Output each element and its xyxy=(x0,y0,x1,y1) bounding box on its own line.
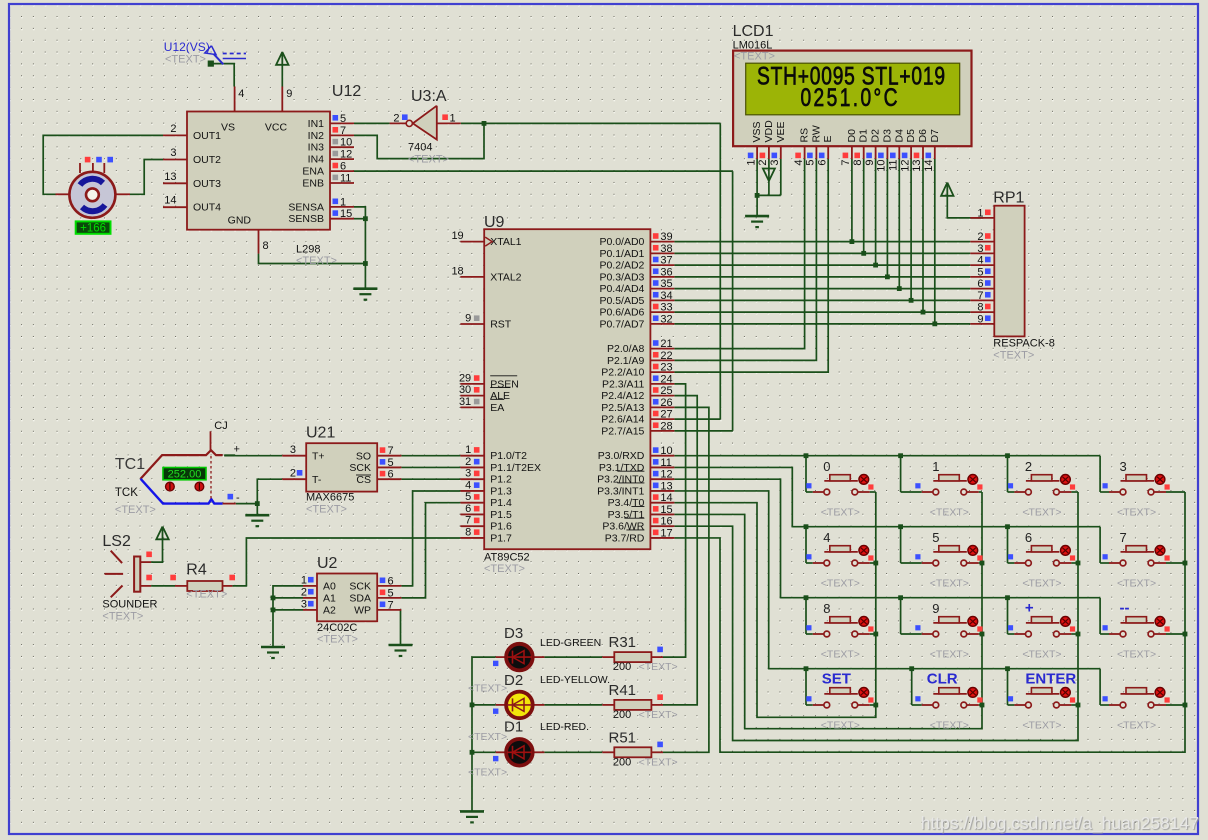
svg-text:<TEXT>: <TEXT> xyxy=(306,504,347,516)
svg-text:P0.2/AD2: P0.2/AD2 xyxy=(599,260,644,272)
svg-text:1: 1 xyxy=(465,444,471,456)
svg-text:OUT3: OUT3 xyxy=(193,178,221,190)
svg-text:P1.0/T2: P1.0/T2 xyxy=(490,450,527,462)
svg-text:U21: U21 xyxy=(306,425,335,442)
svg-text:11: 11 xyxy=(888,160,900,171)
svg-text:WP: WP xyxy=(354,605,371,617)
svg-text:7: 7 xyxy=(340,125,346,137)
svg-text:CJ: CJ xyxy=(214,420,227,432)
svg-text:LED-RED.: LED-RED. xyxy=(540,721,589,733)
svg-text:5: 5 xyxy=(465,491,471,503)
svg-text:15: 15 xyxy=(340,208,352,220)
svg-text:RESPACK-8: RESPACK-8 xyxy=(993,338,1055,350)
svg-text:6: 6 xyxy=(388,469,394,481)
svg-text:3: 3 xyxy=(170,147,176,159)
svg-text:R41: R41 xyxy=(609,682,637,699)
svg-text:252.00: 252.00 xyxy=(168,469,202,481)
svg-text:1: 1 xyxy=(340,196,346,208)
svg-text:P3.7/RD: P3.7/RD xyxy=(605,532,645,544)
svg-text:RS: RS xyxy=(799,128,811,143)
svg-text:P2.5/A13: P2.5/A13 xyxy=(601,402,644,414)
svg-text:11: 11 xyxy=(340,173,351,185)
svg-text:A0: A0 xyxy=(323,581,336,593)
svg-text:21: 21 xyxy=(660,338,672,350)
svg-text:<TEXT>: <TEXT> xyxy=(930,649,969,661)
svg-text:0251.0°C: 0251.0°C xyxy=(801,84,898,112)
svg-text:5: 5 xyxy=(388,587,394,599)
svg-text:IN3: IN3 xyxy=(308,142,325,154)
svg-text:19: 19 xyxy=(451,230,463,242)
svg-text:0: 0 xyxy=(823,459,830,474)
svg-text:200: 200 xyxy=(613,709,631,721)
svg-text:12: 12 xyxy=(899,160,911,172)
svg-text:1: 1 xyxy=(450,113,456,125)
svg-text:6: 6 xyxy=(388,575,394,587)
svg-text:7: 7 xyxy=(388,445,394,457)
svg-text:35: 35 xyxy=(660,278,672,290)
svg-text:5: 5 xyxy=(805,160,817,166)
svg-text:2: 2 xyxy=(301,586,307,598)
svg-text:15: 15 xyxy=(660,504,672,516)
svg-text:P0.0/AD0: P0.0/AD0 xyxy=(599,236,644,248)
svg-text:MAX6675: MAX6675 xyxy=(306,492,354,504)
svg-text:6: 6 xyxy=(1025,530,1032,545)
svg-text:200: 200 xyxy=(613,757,631,769)
svg-text:D5: D5 xyxy=(905,129,917,143)
svg-text:VDD: VDD xyxy=(763,120,775,143)
svg-text:<TEXT>: <TEXT> xyxy=(930,720,969,732)
svg-text:8: 8 xyxy=(852,160,864,166)
svg-text:D6: D6 xyxy=(917,129,929,143)
svg-text:7: 7 xyxy=(840,160,852,166)
svg-text:LS2: LS2 xyxy=(102,533,131,550)
svg-text:6: 6 xyxy=(816,160,828,166)
svg-text:3: 3 xyxy=(769,160,781,166)
svg-text:T+: T+ xyxy=(312,451,325,463)
svg-text:LCD1: LCD1 xyxy=(733,23,774,40)
svg-text:PSEN: PSEN xyxy=(490,378,519,390)
svg-text:<TEXT>: <TEXT> xyxy=(1117,578,1156,590)
svg-text:25: 25 xyxy=(660,385,672,397)
svg-text:D7: D7 xyxy=(929,129,941,143)
svg-text:37: 37 xyxy=(660,255,672,267)
svg-text:<TEXT>: <TEXT> xyxy=(1022,507,1061,519)
svg-text:P3.0/RXD: P3.0/RXD xyxy=(598,450,645,462)
svg-text:P1.7: P1.7 xyxy=(490,532,512,544)
svg-text:P2.2/A10: P2.2/A10 xyxy=(601,367,644,379)
svg-text:<TEXT>: <TEXT> xyxy=(1117,649,1156,661)
svg-text:P3.6/WR: P3.6/WR xyxy=(602,521,644,533)
svg-text:TC1: TC1 xyxy=(115,456,145,473)
svg-text:8: 8 xyxy=(465,526,471,538)
svg-text:8: 8 xyxy=(263,240,269,252)
svg-text:200: 200 xyxy=(613,661,631,673)
svg-text:--: -- xyxy=(1120,600,1130,617)
svg-text:RP1: RP1 xyxy=(993,190,1024,207)
svg-text:SENSB: SENSB xyxy=(288,213,324,225)
svg-text:9: 9 xyxy=(977,313,983,325)
svg-text:P1.1/T2EX: P1.1/T2EX xyxy=(490,462,541,474)
svg-text:9: 9 xyxy=(864,160,876,166)
svg-text:<TEXT>: <TEXT> xyxy=(468,731,507,743)
svg-text:22: 22 xyxy=(660,350,672,362)
svg-text:4: 4 xyxy=(465,479,471,491)
svg-text:P0.7/AD7: P0.7/AD7 xyxy=(599,318,644,330)
svg-text:SCK: SCK xyxy=(349,581,371,593)
svg-text:<TEXT>: <TEXT> xyxy=(734,51,775,63)
svg-text:A1: A1 xyxy=(323,593,336,605)
svg-text:6: 6 xyxy=(977,278,983,290)
svg-text:7: 7 xyxy=(977,290,983,302)
svg-text:U9: U9 xyxy=(484,214,505,231)
svg-text:7: 7 xyxy=(1120,530,1127,545)
svg-text:<TEXT>: <TEXT> xyxy=(115,504,156,516)
svg-text:U3:A: U3:A xyxy=(411,88,447,105)
svg-text:<TEXT>: <TEXT> xyxy=(1117,507,1156,519)
svg-text:P1.5: P1.5 xyxy=(490,509,512,521)
svg-text:IN1: IN1 xyxy=(308,118,325,130)
svg-text:5: 5 xyxy=(932,530,939,545)
svg-text:P0.4/AD4: P0.4/AD4 xyxy=(599,283,644,295)
svg-text:16: 16 xyxy=(660,516,672,528)
svg-text:31: 31 xyxy=(459,396,471,408)
svg-text:<TEXT>: <TEXT> xyxy=(821,507,860,519)
svg-text:<TEXT>: <TEXT> xyxy=(296,255,337,267)
svg-text:SET: SET xyxy=(822,671,851,688)
svg-text:1: 1 xyxy=(301,574,307,586)
svg-text:P3.3/INT1: P3.3/INT1 xyxy=(597,485,644,497)
svg-text:3: 3 xyxy=(977,243,983,255)
svg-text:OUT4: OUT4 xyxy=(193,202,221,214)
svg-text:U2: U2 xyxy=(317,555,338,572)
svg-text:P2.0/A8: P2.0/A8 xyxy=(607,343,645,355)
svg-text:14: 14 xyxy=(660,492,672,504)
svg-text:P2.6/A14: P2.6/A14 xyxy=(601,414,644,426)
svg-text:E: E xyxy=(822,135,834,142)
svg-text:9: 9 xyxy=(286,88,292,100)
svg-text:<TEXT>: <TEXT> xyxy=(821,578,860,590)
svg-text:4: 4 xyxy=(238,88,244,100)
svg-text:P1.4: P1.4 xyxy=(490,497,512,509)
svg-text:AT89C52: AT89C52 xyxy=(484,552,530,564)
svg-text:<TEXT>: <TEXT> xyxy=(165,54,206,66)
svg-text:<TEXT>: <TEXT> xyxy=(1022,720,1061,732)
svg-text:39: 39 xyxy=(660,231,672,243)
svg-text:VSS: VSS xyxy=(751,121,763,142)
svg-text:12: 12 xyxy=(660,469,672,481)
svg-text:+: + xyxy=(1025,600,1034,617)
svg-text:3: 3 xyxy=(290,444,296,456)
svg-text:P0.5/AD5: P0.5/AD5 xyxy=(599,295,644,307)
svg-text:P0.1/AD1: P0.1/AD1 xyxy=(599,248,644,260)
svg-text:7404: 7404 xyxy=(408,142,432,154)
svg-text:<TEXT>: <TEXT> xyxy=(1022,578,1061,590)
svg-text:<TEXT>: <TEXT> xyxy=(484,563,525,575)
svg-text:8: 8 xyxy=(977,302,983,314)
svg-text:STH+0095 STL+019: STH+0095 STL+019 xyxy=(757,62,945,90)
svg-text:<TEXT>: <TEXT> xyxy=(408,154,449,166)
svg-text:9: 9 xyxy=(465,313,471,325)
svg-text:<TEXT>: <TEXT> xyxy=(930,578,969,590)
svg-text:D0: D0 xyxy=(846,129,858,143)
svg-text:18: 18 xyxy=(451,265,463,277)
svg-text:2: 2 xyxy=(170,123,176,135)
svg-text:29: 29 xyxy=(459,372,471,384)
svg-text:10: 10 xyxy=(340,137,352,149)
svg-text:36: 36 xyxy=(660,266,672,278)
svg-text:33: 33 xyxy=(660,302,672,314)
svg-text:U12: U12 xyxy=(332,83,361,100)
svg-text:6: 6 xyxy=(340,161,346,173)
svg-text:27: 27 xyxy=(660,409,672,421)
svg-text:7: 7 xyxy=(465,515,471,527)
svg-text:<TEXT>: <TEXT> xyxy=(821,720,860,732)
svg-text:P0.3/AD3: P0.3/AD3 xyxy=(599,271,644,283)
svg-text:VS: VS xyxy=(221,122,235,134)
svg-text:P0.6/AD6: P0.6/AD6 xyxy=(599,307,644,319)
svg-text:VEE: VEE xyxy=(775,121,787,142)
svg-text:2: 2 xyxy=(757,160,769,166)
svg-text:2: 2 xyxy=(977,231,983,243)
svg-text:R51: R51 xyxy=(609,729,637,746)
svg-text:23: 23 xyxy=(660,362,672,374)
svg-text:OUT1: OUT1 xyxy=(193,130,221,142)
svg-text:14: 14 xyxy=(164,195,176,207)
svg-text:XTAL1: XTAL1 xyxy=(490,236,521,248)
svg-text:32: 32 xyxy=(660,313,672,325)
svg-text:SOUNDER: SOUNDER xyxy=(102,599,157,611)
svg-text:IN2: IN2 xyxy=(308,130,325,142)
svg-text:P2.4/A12: P2.4/A12 xyxy=(601,390,644,402)
svg-text:SDA: SDA xyxy=(349,593,371,605)
svg-text:P3.1/TXD: P3.1/TXD xyxy=(599,462,645,474)
svg-text:GND: GND xyxy=(228,215,252,227)
svg-text:17: 17 xyxy=(660,527,672,539)
svg-text:https://blog.csdn.net/a_huan25: https://blog.csdn.net/a_huan258147 xyxy=(921,813,1199,834)
svg-text:P2.3/A11: P2.3/A11 xyxy=(602,378,645,390)
svg-text:P2.7/A15: P2.7/A15 xyxy=(601,425,644,437)
svg-text:28: 28 xyxy=(660,420,672,432)
svg-text:D3: D3 xyxy=(881,129,893,143)
svg-text:<TEXT>: <TEXT> xyxy=(930,507,969,519)
svg-text:LED-YELLOW.: LED-YELLOW. xyxy=(540,674,610,686)
svg-text:3: 3 xyxy=(301,598,307,610)
svg-text:SO: SO xyxy=(356,451,371,463)
svg-text:<TEXT>: <TEXT> xyxy=(639,661,678,673)
svg-text:5: 5 xyxy=(340,113,346,125)
svg-text:RW: RW xyxy=(810,125,822,142)
svg-text:26: 26 xyxy=(660,397,672,409)
svg-text:D2: D2 xyxy=(870,129,882,143)
svg-text:<TEXT>: <TEXT> xyxy=(993,350,1034,362)
svg-text:<TEXT>: <TEXT> xyxy=(317,634,358,646)
svg-text:2: 2 xyxy=(465,456,471,468)
svg-text:IN4: IN4 xyxy=(308,154,325,166)
svg-text:P3.2/INT0: P3.2/INT0 xyxy=(597,474,644,486)
svg-text:34: 34 xyxy=(660,290,672,302)
svg-text:<TEXT>: <TEXT> xyxy=(639,709,678,721)
svg-text:L298: L298 xyxy=(296,244,320,256)
svg-text:XTAL2: XTAL2 xyxy=(490,271,521,283)
svg-text:D3: D3 xyxy=(504,625,523,642)
svg-text:7: 7 xyxy=(388,599,394,611)
svg-text:4: 4 xyxy=(977,255,983,267)
svg-text:T-: T- xyxy=(312,474,322,486)
svg-text:ENA: ENA xyxy=(302,166,324,178)
svg-text:<TEXT>: <TEXT> xyxy=(1117,720,1156,732)
svg-text:11: 11 xyxy=(660,457,671,469)
svg-text:5: 5 xyxy=(388,457,394,469)
svg-text:-: - xyxy=(236,492,240,504)
svg-text:2: 2 xyxy=(1025,459,1032,474)
svg-text:13: 13 xyxy=(911,160,923,172)
svg-text:P3.5/T1: P3.5/T1 xyxy=(608,509,645,521)
svg-text:3: 3 xyxy=(1120,459,1127,474)
svg-text:4: 4 xyxy=(793,160,805,166)
svg-text:13: 13 xyxy=(660,480,672,492)
svg-text:<TEXT>: <TEXT> xyxy=(639,757,678,769)
svg-text:A2: A2 xyxy=(323,605,336,617)
svg-text:<TEXT>: <TEXT> xyxy=(468,682,507,694)
svg-text:38: 38 xyxy=(660,243,672,255)
svg-text:12: 12 xyxy=(340,149,352,161)
svg-text:5: 5 xyxy=(977,266,983,278)
svg-text:P1.2: P1.2 xyxy=(490,474,512,486)
svg-text:EA: EA xyxy=(490,402,504,414)
svg-text:<TEXT>: <TEXT> xyxy=(186,589,227,601)
svg-text:SENSA: SENSA xyxy=(288,201,324,213)
svg-text:6: 6 xyxy=(465,503,471,515)
svg-text:R31: R31 xyxy=(609,634,637,651)
svg-text:R4: R4 xyxy=(186,562,207,579)
svg-text:1: 1 xyxy=(977,208,983,220)
svg-text:1: 1 xyxy=(932,459,939,474)
svg-text:ENB: ENB xyxy=(302,178,324,190)
svg-text:1: 1 xyxy=(745,160,757,166)
svg-text:SCK: SCK xyxy=(349,462,371,474)
svg-text:P1.3: P1.3 xyxy=(490,485,512,497)
svg-text:30: 30 xyxy=(459,384,471,396)
svg-text:<TEXT>: <TEXT> xyxy=(821,649,860,661)
svg-text:+: + xyxy=(234,444,240,456)
svg-text:9: 9 xyxy=(932,601,939,616)
svg-text:8: 8 xyxy=(823,601,830,616)
svg-text:4: 4 xyxy=(823,530,830,545)
svg-text:CLR: CLR xyxy=(927,671,958,688)
svg-text:ALE: ALE xyxy=(490,390,510,402)
svg-text:D1: D1 xyxy=(858,129,870,143)
svg-text:10: 10 xyxy=(876,160,888,172)
svg-text:CS: CS xyxy=(356,474,371,486)
svg-text:2: 2 xyxy=(290,468,296,480)
svg-text:ENTER: ENTER xyxy=(1025,671,1076,688)
svg-text:14: 14 xyxy=(923,160,935,172)
svg-text:LED-GREEN: LED-GREEN xyxy=(540,637,601,649)
svg-text:24C02C: 24C02C xyxy=(317,622,357,634)
svg-text:<TEXT>: <TEXT> xyxy=(102,611,143,623)
svg-text:D4: D4 xyxy=(893,129,905,143)
svg-text:13: 13 xyxy=(164,171,176,183)
svg-text:OUT2: OUT2 xyxy=(193,154,221,166)
svg-text:P3.4/T0: P3.4/T0 xyxy=(608,497,645,509)
svg-text:RST: RST xyxy=(490,319,512,331)
svg-text:10: 10 xyxy=(660,445,672,457)
svg-text:P1.6: P1.6 xyxy=(490,521,512,533)
svg-text:<TEXT>: <TEXT> xyxy=(1022,649,1061,661)
svg-text:3: 3 xyxy=(465,468,471,480)
svg-text:24: 24 xyxy=(660,373,672,385)
svg-text:U12(VS): U12(VS) xyxy=(164,40,210,54)
svg-text:<TEXT>: <TEXT> xyxy=(468,767,507,779)
svg-text:+166: +166 xyxy=(80,223,106,235)
svg-text:P2.1/A9: P2.1/A9 xyxy=(607,355,645,367)
svg-text:2: 2 xyxy=(393,113,399,125)
svg-text:VCC: VCC xyxy=(265,122,288,134)
svg-text:TCK: TCK xyxy=(115,487,138,499)
